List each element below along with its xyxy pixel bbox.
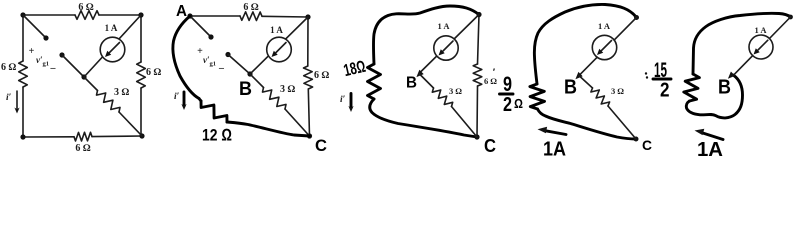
wire c1 source diagonal [84, 15, 141, 77]
svg-text:′: ′ [493, 67, 495, 77]
resistor R-right 6ohm circuit1 [137, 62, 146, 88]
svg-text:6 Ω: 6 Ω [75, 143, 91, 154]
resistor 9/2 ohm hand-drawn circuit4 [530, 84, 545, 109]
arrowhead at node B circuit5 [728, 72, 735, 79]
terminal + of vg1 [43, 35, 48, 40]
arrowhead at node B circuit4 [575, 72, 582, 79]
current arrow i-prime c2 [181, 92, 186, 110]
resistor 3ohm circuit4 [591, 88, 610, 106]
current arrow i-prime c1 [14, 91, 19, 114]
arrowhead at node B circuit3 [416, 70, 423, 77]
wire c2 3ohm to corner [285, 109, 310, 136]
wire c4 source diagonal [579, 18, 637, 76]
svg-text:B: B [564, 77, 577, 99]
svg-text:1 A: 1 A [105, 23, 118, 33]
resistor R-right 6ohm circuit3 [473, 64, 482, 86]
node c1 top-right [138, 12, 143, 17]
wire c1 bottom-right segment [92, 135, 142, 138]
svg-text:A: A [176, 3, 187, 20]
node c1 bottom-right [139, 133, 144, 138]
svg-text:i′: i′ [174, 92, 180, 102]
wire c2 stub from - terminal [228, 55, 250, 75]
svg-text:i′: i′ [340, 95, 346, 105]
node C circuit4 [634, 137, 639, 142]
resistor 12ohm hand-drawn circuit2 [201, 101, 227, 122]
svg-text:B: B [406, 75, 417, 92]
wire hand-drawn loop circuit5 [686, 75, 742, 118]
terminal - of vg1 [59, 52, 64, 57]
wire c1 left lower [22, 87, 24, 137]
svg-text:18Ω: 18Ω [342, 57, 368, 80]
resistor R-right 6ohm circuit2 [304, 66, 313, 89]
node c2 top-right [305, 14, 310, 19]
svg-text:3 Ω: 3 Ω [280, 84, 296, 95]
resistor R-top 6ohm circuit1 [75, 11, 99, 20]
svg-text:C: C [642, 137, 652, 153]
svg-text:6 Ω: 6 Ω [78, 2, 94, 13]
resistor 18ohm hand-drawn circuit3 [368, 64, 381, 99]
wire c3 right lower [476, 86, 479, 137]
current source 1A circuit3 [434, 36, 458, 60]
wire c1 top-left segment [23, 14, 75, 16]
svg-text:12 Ω: 12 Ω [202, 126, 232, 145]
wire c2 right upper [307, 17, 309, 66]
svg-text:6 Ω: 6 Ω [1, 62, 17, 73]
node c3 top-right [476, 12, 481, 17]
node c4 top junction [634, 15, 639, 20]
svg-text:v′g1: v′g1 [36, 55, 49, 68]
current arrow 1A handwritten circuit5 [695, 129, 724, 140]
svg-text:+: + [29, 46, 35, 57]
wire c1 right lower [140, 88, 142, 136]
wire c5 source diagonal [734, 17, 791, 75]
svg-text:3 Ω: 3 Ω [449, 86, 462, 96]
wire hand-drawn left loop circuit2 [173, 16, 199, 99]
wire c2 stub to + terminal [190, 16, 211, 37]
resistor 3ohm circuit2 [263, 88, 287, 110]
svg-text:C: C [315, 136, 327, 155]
wire c1 stub from - terminal [62, 55, 84, 77]
wire c3 right upper [478, 15, 480, 65]
resistor 3ohm circuit1 [97, 91, 121, 113]
wire c1 3ohm to corner [119, 112, 142, 136]
svg-text:1 A: 1 A [437, 21, 450, 31]
wire hand-drawn top+left loop circuit4 [534, 4, 636, 84]
svg-text:6 Ω: 6 Ω [314, 70, 330, 81]
wire c4 to 3ohm [579, 76, 593, 88]
wire c2 top-right segment [262, 15, 308, 18]
label 15/2 ohm handwritten circuit5 [645, 59, 671, 102]
svg-text:v′g1: v′g1 [203, 55, 216, 68]
wire c3 3ohm to C [452, 107, 478, 138]
wire c2 to 3ohm [250, 74, 264, 88]
svg-text:2: 2 [660, 80, 670, 102]
current source 1A circuit2 [267, 37, 292, 62]
wire c1 top-right segment [99, 14, 141, 16]
node C circuit3 [474, 134, 479, 139]
svg-text:6 Ω: 6 Ω [243, 2, 259, 13]
wire c1 stub to + terminal [23, 15, 46, 38]
svg-text:Ω: Ω [514, 96, 523, 111]
label 9/2 ohm handwritten circuit4 [493, 67, 523, 116]
svg-text:−: − [50, 63, 56, 75]
svg-text:1 A: 1 A [598, 21, 611, 31]
junction node c1 center [81, 74, 86, 79]
wire c1 left upper [22, 15, 24, 61]
svg-text:−: − [218, 63, 224, 75]
svg-text:B: B [239, 79, 252, 100]
current source 1A circuit5 [749, 35, 773, 59]
wire c1 right upper [140, 15, 142, 62]
svg-text:1A: 1A [697, 139, 723, 158]
current arrow 1A handwritten circuit4 [538, 127, 567, 135]
wire c1 to 3ohm [84, 77, 98, 91]
wire hand-drawn left+top circuit5 [693, 13, 791, 74]
node C circuit2 [307, 133, 312, 138]
svg-text:i′: i′ [6, 93, 12, 103]
svg-text:B: B [718, 77, 731, 99]
current source 1A circuit1 [100, 37, 125, 62]
resistor R-left 6ohm circuit1 [19, 61, 28, 87]
resistor 3ohm circuit3 [432, 88, 452, 107]
wire hand-drawn bottom circuit2 [227, 122, 310, 136]
node A circuit2 [187, 13, 192, 18]
wire c2 source diagonal [250, 17, 308, 74]
svg-text:3 Ω: 3 Ω [114, 87, 130, 98]
junction node B circuit2 [247, 71, 252, 76]
svg-text:6 Ω: 6 Ω [484, 76, 497, 86]
wire hand-drawn bottom circuit3 [370, 99, 477, 137]
wire hand-drawn top+left loop circuit3 [373, 6, 479, 64]
node c1 top-left [20, 12, 25, 17]
wire hand-drawn bottom circuit4 [538, 109, 637, 139]
node c1 bottom-left [20, 134, 25, 139]
current source 1A circuit4 [592, 35, 616, 59]
current arrow i-prime c3 [348, 94, 353, 113]
svg-text:2: 2 [503, 94, 512, 116]
terminal + of vg1 c2 [208, 34, 213, 39]
resistor 15/2 ohm hand-drawn circuit5 [684, 74, 700, 101]
svg-text:1 A: 1 A [754, 25, 767, 35]
wire c2 right lower [308, 89, 309, 136]
terminal - of vg1 c2 [225, 52, 230, 57]
svg-text:C: C [484, 136, 496, 156]
svg-text:1 A: 1 A [270, 25, 283, 35]
resistor R-bottom 6ohm circuit1 [74, 132, 92, 141]
resistor R-top 6ohm circuit2 [240, 12, 262, 21]
node c5 top junction [788, 15, 793, 20]
wire c2 into 12ohm [199, 99, 201, 102]
svg-text:6 Ω: 6 Ω [146, 67, 162, 78]
wire c4 3ohm to C [608, 106, 636, 139]
svg-text:1A: 1A [543, 139, 566, 159]
wire c1 bottom-left segment [23, 136, 74, 138]
wire c2 top-left segment [190, 15, 240, 17]
svg-text:3 Ω: 3 Ω [611, 86, 624, 96]
wire c3 to 3ohm [419, 74, 434, 89]
wire c3 source diagonal [419, 15, 479, 74]
